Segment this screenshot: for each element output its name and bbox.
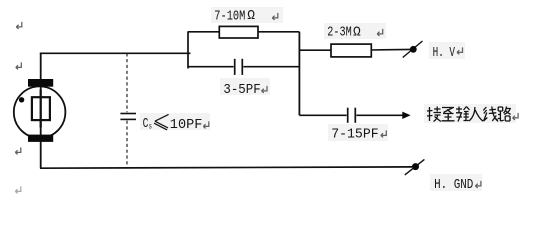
HV terminal slash — [403, 41, 423, 58]
label 3-5PF — [220, 78, 270, 98]
paragraph mark (left margin, row 4) — [15, 186, 20, 193]
char RU — [469, 107, 483, 121]
<= symbol drawn — [154, 114, 169, 129]
svg-text:s: s — [149, 123, 152, 132]
resistor R1 body — [219, 26, 258, 38]
arrowhead to input line — [402, 112, 410, 119]
dashed lead lower — [126, 121, 128, 168]
char SHU — [456, 107, 470, 122]
resistor R2 body — [331, 44, 371, 57]
inner through line — [40, 90, 42, 128]
dashed lead upper — [126, 53, 128, 112]
bottom electrode (black) — [28, 135, 53, 142]
plate top — [120, 113, 136, 115]
GND terminal slash — [405, 159, 425, 175]
char JIE — [427, 107, 441, 122]
capacitor C1 plates — [234, 59, 236, 75]
HV terminal dot — [410, 46, 417, 53]
char XIAN — [483, 107, 498, 122]
inner element rect — [32, 97, 50, 120]
envelope circle — [14, 86, 66, 138]
top electrode (black) — [28, 79, 53, 87]
gas dot — [19, 97, 24, 102]
label 7-15PF — [328, 124, 388, 142]
wire: R2 to HV terminal — [371, 48, 411, 51]
label H. V — [429, 42, 465, 61]
label H. GND — [430, 174, 482, 193]
bottom branch wire right — [243, 66, 299, 68]
wire: bottom ground rail — [40, 167, 412, 168]
capacitor Cs (dashed stray capacitance) — [120, 53, 136, 168]
paragraph mark (left margin, row 2) — [16, 62, 21, 69]
svg-text:7-10M: 7-10M — [214, 9, 245, 25]
svg-text:Ω: Ω — [353, 25, 361, 41]
paragraph mark (left margin, row 3) — [15, 147, 20, 154]
through lead — [40, 53, 42, 168]
char LU — [498, 107, 511, 122]
svg-text:H. GND: H. GND — [434, 177, 473, 193]
left bar — [187, 31, 189, 68]
svg-text:10PF: 10PF — [170, 117, 203, 133]
svg-text:7-15PF: 7-15PF — [331, 126, 379, 142]
top branch wire — [188, 31, 299, 33]
wire: junction down-branch to C2 — [299, 114, 346, 116]
svg-text:Ω: Ω — [247, 9, 255, 25]
svg-text:C: C — [143, 116, 149, 132]
label Cs<=10PF — [140, 113, 210, 133]
right junction bar — [298, 32, 300, 116]
wire: top horizontal from tube to RC network — [40, 52, 191, 54]
svg-text:2-3M: 2-3M — [327, 25, 352, 41]
label 7-10MOhm — [211, 7, 283, 25]
label 2-3MOhm — [324, 23, 386, 41]
paragraph mark (left margin, row 1) — [16, 22, 22, 29]
return mark after input-line label — [513, 113, 519, 120]
label (Chinese): connect to input line — [424, 104, 516, 123]
char ZHI — [442, 108, 455, 121]
plate bottom — [120, 118, 136, 120]
wire: C2 to arrow — [356, 114, 403, 116]
RC parallel network — [188, 26, 299, 115]
GND terminal dot — [412, 163, 419, 170]
svg-text:3-5PF: 3-5PF — [223, 82, 260, 98]
svg-text:H. V: H. V — [433, 45, 456, 61]
gas discharge tube V1 — [14, 53, 66, 168]
bottom branch wire left — [188, 66, 234, 68]
wire: to R2 — [299, 49, 331, 51]
capacitor C2 plates — [347, 108, 349, 123]
